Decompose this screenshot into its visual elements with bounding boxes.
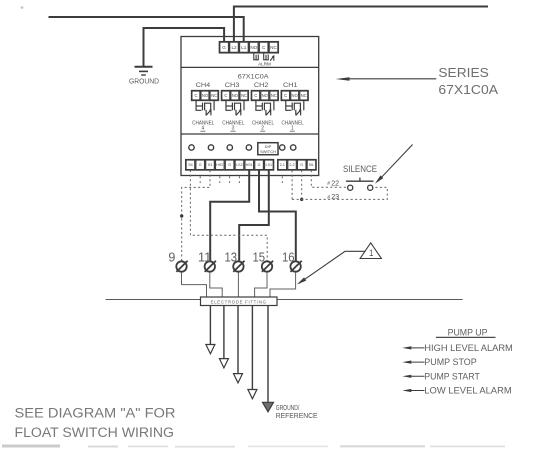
terminal strip G L2 L1 NO C NC	[219, 42, 278, 54]
junction dot	[180, 214, 183, 217]
svg-text:S4: S4	[188, 163, 192, 167]
dashed stubs on unused terminals	[200, 176, 282, 183]
wire LS1 to 13	[239, 170, 269, 261]
LED indicators	[189, 145, 296, 150]
svg-text:NO: NO	[232, 93, 239, 98]
wire G to 16	[259, 170, 296, 261]
svg-text:G: G	[222, 45, 226, 50]
svg-text:L2: L2	[231, 45, 237, 50]
electrode high level alarm	[206, 306, 215, 354]
svg-text:NC: NC	[270, 45, 277, 50]
CH labels	[196, 82, 298, 89]
svg-text:11: 11	[198, 251, 212, 265]
wire terminal 9 to fitting	[182, 272, 207, 297]
svg-text:PUMP UP: PUMP UP	[448, 327, 488, 337]
svg-text:2-2: 2-2	[289, 163, 294, 167]
channel terminal groups	[191, 90, 308, 100]
svg-text:CH3: CH3	[225, 82, 240, 89]
CHANNEL labels	[192, 120, 304, 131]
svg-text:4: 4	[202, 126, 205, 132]
svg-text:#: #	[327, 181, 330, 187]
svg-text:REFERENCE: REFERENCE	[276, 411, 318, 420]
svg-text:NO: NO	[202, 93, 209, 98]
wire L1 from left	[49, 17, 244, 43]
svg-text:L1: L1	[241, 45, 247, 50]
svg-text:NC: NC	[211, 93, 217, 98]
svg-text:G: G	[300, 163, 303, 167]
svg-text:ALRM: ALRM	[258, 62, 271, 67]
svg-text:CH2: CH2	[254, 82, 269, 89]
svg-text:23: 23	[331, 192, 339, 201]
wire G to ground	[144, 28, 225, 66]
terminal circles 9 11 13 15 16	[176, 261, 301, 272]
svg-text:ELECTRODE FITTING: ELECTRODE FITTING	[211, 299, 267, 304]
callout triangle 1	[360, 243, 381, 259]
leader to wire 16	[299, 251, 365, 283]
controller box U1	[181, 37, 319, 176]
bottom terminal row right	[278, 159, 317, 170]
svg-text:SEE DIAGRAM "A" FOR: SEE DIAGRAM "A" FOR	[15, 406, 176, 421]
svg-text:PUMP START: PUMP START	[424, 371, 480, 381]
terminal numbers	[168, 251, 294, 265]
electrode fitting box	[201, 297, 278, 306]
see diagram note	[15, 406, 176, 441]
svg-text:GROUND: GROUND	[129, 77, 159, 86]
svg-text:LS2: LS2	[236, 163, 242, 167]
svg-text:15: 15	[253, 251, 266, 265]
ticks under channel numbers	[200, 130, 294, 132]
electrode ground/reference	[263, 306, 274, 412]
dashed S3 to 9	[182, 170, 210, 261]
electrode pump stop	[219, 306, 228, 368]
svg-text:C: C	[224, 93, 227, 98]
svg-text:LS1: LS1	[266, 163, 272, 167]
svg-text:NC: NC	[271, 93, 277, 98]
svg-text:PUMP STOP: PUMP STOP	[424, 357, 476, 367]
svg-text:67X1C0A: 67X1C0A	[238, 74, 269, 81]
series title	[438, 65, 498, 97]
svg-text:1: 1	[369, 247, 373, 258]
svg-text:9: 9	[168, 251, 175, 265]
relay ALRM	[254, 53, 274, 61]
svg-text:C: C	[284, 93, 287, 98]
junction dot	[300, 198, 303, 201]
svg-text:CH4: CH4	[196, 82, 211, 89]
svg-text:FLOAT SWITCH WIRING: FLOAT SWITCH WIRING	[15, 425, 175, 440]
DIP switch	[258, 143, 278, 155]
wire terminal 16 to fitting	[270, 272, 296, 297]
arrow to silence	[378, 145, 413, 182]
svg-text:SERIES: SERIES	[438, 65, 489, 80]
dashed S4 to 15	[190, 170, 267, 261]
bottom terminal row left	[186, 159, 274, 170]
svg-text:G: G	[258, 163, 261, 167]
svg-text:S3: S3	[208, 163, 212, 167]
svg-text:LOW LEVEL ALARM: LOW LEVEL ALARM	[424, 386, 511, 396]
svg-text:22: 22	[331, 178, 339, 187]
channel relay symbols	[196, 101, 304, 116]
dashed #23 run	[292, 187, 387, 199]
svg-text:NC: NC	[301, 93, 307, 98]
svg-text:G: G	[199, 163, 202, 167]
wire terminal 13 to fitting	[237, 272, 239, 297]
electrode low level alarm	[248, 306, 257, 399]
svg-text:HIGH LEVEL ALARM: HIGH LEVEL ALARM	[424, 343, 513, 353]
svg-text:SIL: SIL	[309, 163, 314, 167]
svg-text:16: 16	[282, 251, 295, 265]
svg-text:C: C	[194, 93, 197, 98]
svg-text:2-1: 2-1	[280, 163, 285, 167]
svg-text:3: 3	[232, 126, 235, 132]
tank line	[106, 299, 463, 301]
wire L2 to top right	[234, 7, 488, 44]
svg-text:HS1: HS1	[246, 163, 253, 167]
svg-text:13: 13	[225, 251, 238, 265]
svg-text:NC: NC	[241, 93, 247, 98]
dashed SIL to #22	[311, 170, 347, 187]
legend rows	[406, 348, 425, 391]
svg-text:2: 2	[261, 126, 264, 132]
svg-text:#: #	[327, 195, 330, 201]
svg-text:G: G	[228, 163, 231, 167]
svg-text:NO: NO	[292, 93, 299, 98]
svg-text:67X1C0A: 67X1C0A	[438, 82, 498, 97]
electrode pump start	[234, 306, 243, 383]
ground	[135, 67, 153, 75]
svg-text:NO: NO	[250, 45, 257, 50]
svg-text:C: C	[254, 93, 257, 98]
svg-text:SILENCE: SILENCE	[343, 164, 377, 174]
series arrow	[348, 78, 436, 80]
dashed 2-2 / G to #23	[291, 170, 293, 199]
scan artifacts bottom	[2, 445, 505, 448]
svg-text:NO: NO	[262, 93, 269, 98]
wire terminal 15 to fitting	[255, 272, 267, 297]
wire HS1 to 11	[210, 170, 249, 261]
scan speck top left	[21, 6, 24, 9]
svg-text:1: 1	[291, 126, 294, 132]
ground/reference label	[276, 403, 318, 420]
svg-text:SWITCH: SWITCH	[260, 149, 276, 154]
wire terminal 11 to fitting	[210, 272, 222, 297]
svg-text:HS2: HS2	[216, 163, 223, 167]
svg-text:CH1: CH1	[283, 82, 298, 89]
